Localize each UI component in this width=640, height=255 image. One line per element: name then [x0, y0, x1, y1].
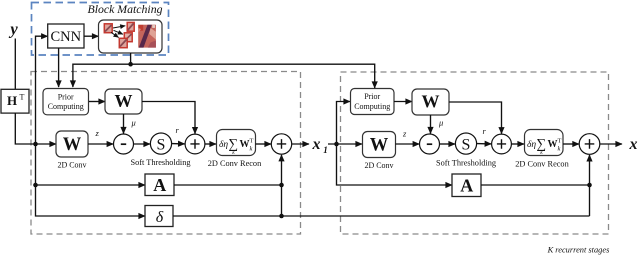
op S1 soft threshold: [150, 133, 171, 154]
op sum1 (stage output adder): [271, 134, 291, 154]
svg-text:2D Conv Recon: 2D Conv Recon: [515, 160, 569, 169]
block patch montage: [99, 20, 163, 53]
wire Wtop2 down to minus2: [430, 115, 432, 134]
svg-text:2D Conv: 2D Conv: [364, 161, 393, 170]
wire recon2 to sum2: [563, 143, 579, 145]
wire delta up into sum2: [589, 155, 591, 216]
svg-text:Soft Thresholding: Soft Thresholding: [436, 159, 496, 168]
wire W2 to minus2: [396, 143, 420, 145]
node junction delta sum1: [279, 214, 284, 219]
wire x1 up to prior2: [337, 102, 351, 145]
patch big: [138, 25, 156, 48]
patch P1: [104, 24, 112, 33]
op minus2: [420, 134, 440, 154]
svg-text:Soft Thresholding: Soft Thresholding: [131, 158, 191, 167]
patch P2: [127, 22, 134, 31]
wire sum2 to x out: [600, 143, 622, 145]
wire minus1 to S1: [134, 143, 151, 145]
patch P4: [119, 38, 127, 47]
wire Wtop1 to plus1 top: [142, 102, 195, 134]
svg-text:CNN: CNN: [50, 29, 81, 45]
svg-text:A: A: [153, 175, 166, 195]
wire Wtop2 to plus2 top: [449, 102, 502, 134]
wire A1 branch: [36, 144, 146, 185]
node junction x1: [334, 142, 339, 147]
wire delta out long: [173, 215, 590, 217]
wire patch arrows: [113, 26, 125, 28]
svg-text:x: x: [312, 136, 321, 153]
block recon1: [217, 130, 256, 156]
wire A2 to sum2 vertical: [481, 184, 590, 186]
svg-text:K recurrent stages: K recurrent stages: [547, 246, 610, 255]
wire prior2 to Wtop2: [394, 101, 412, 103]
svg-text:x: x: [629, 136, 638, 153]
block Wtop1: [105, 89, 142, 114]
svg-text:Prior: Prior: [58, 93, 74, 102]
svg-text:y: y: [8, 20, 18, 39]
block Wtop2: [412, 89, 449, 115]
svg-text:δ: δ: [156, 209, 164, 226]
wire y to HT: [14, 39, 16, 90]
wire x1 to W2: [328, 143, 362, 145]
block A2: [452, 174, 481, 197]
block W1 2D Conv: [56, 131, 88, 157]
svg-text:z: z: [95, 128, 100, 138]
wire A1 to sum1 vertical: [174, 184, 282, 186]
svg-text:S: S: [157, 136, 166, 153]
block CNN: [48, 24, 84, 48]
node junction main: [33, 142, 38, 147]
wire x1 down to A2: [337, 144, 453, 185]
wire sum1 to x1: [292, 143, 309, 145]
block W2 2D Conv: [363, 132, 396, 158]
node junction A2 out: [587, 183, 592, 188]
svg-text:Prior: Prior: [364, 92, 380, 101]
svg-text:μ: μ: [131, 118, 136, 128]
svg-text:W: W: [63, 135, 82, 155]
block prior computing 1: [43, 89, 89, 115]
svg-text:S: S: [462, 136, 471, 153]
stage 2 frame (gray dashed): [341, 72, 609, 234]
wire S1 to plus1: [172, 143, 185, 145]
svg-text:r: r: [483, 126, 487, 136]
wire CNN to patches: [84, 35, 99, 37]
op minus1: [114, 134, 134, 154]
op plus2: [492, 134, 512, 154]
wire S2 to plus2: [477, 143, 492, 145]
svg-text:∑: ∑: [229, 136, 239, 151]
svg-text:Computing: Computing: [354, 102, 390, 111]
patch P3: [124, 33, 132, 42]
wire up into sum1: [281, 155, 283, 216]
wire CNN down to prior1: [58, 48, 60, 87]
block prior computing 2: [351, 89, 395, 115]
block A1: [145, 174, 174, 196]
wire connector to prior2: [131, 64, 375, 88]
wire plus2 to recon2: [511, 143, 524, 145]
wire plus1 to recon1: [205, 143, 216, 145]
block matching module frame (blue dashed): [32, 3, 169, 56]
svg-text:Block Matching: Block Matching: [87, 2, 162, 16]
svg-text:Computing: Computing: [48, 102, 84, 111]
node junction connector: [128, 62, 133, 67]
op plus1: [185, 134, 205, 154]
svg-text:z: z: [402, 129, 407, 139]
svg-text:1: 1: [323, 145, 328, 155]
wire HT to main row: [15, 113, 56, 144]
node junction A1 out: [279, 183, 284, 188]
svg-text:W: W: [115, 91, 133, 111]
svg-text:2D Conv: 2D Conv: [57, 161, 86, 170]
node junction A1: [33, 183, 38, 188]
svg-text:r: r: [176, 125, 180, 135]
svg-text:W: W: [422, 91, 440, 111]
wire connector to prior1: [73, 64, 131, 87]
svg-text:δη: δη: [527, 140, 536, 150]
svg-text:∑: ∑: [537, 136, 547, 151]
svg-text:A: A: [460, 175, 473, 195]
svg-text:δη: δη: [219, 140, 228, 150]
wire Wtop1 down to minus1: [123, 114, 125, 134]
block recon2: [525, 130, 564, 156]
wire prior1 to Wtop1: [89, 101, 105, 103]
wire delta branch: [36, 185, 146, 216]
wire recon1 to sum1: [256, 143, 272, 145]
svg-text:2D Conv Recon: 2D Conv Recon: [208, 159, 262, 168]
svg-text:T: T: [20, 93, 25, 102]
wire minus2 to S2: [440, 143, 456, 145]
svg-text:H: H: [7, 93, 17, 108]
svg-text:μ: μ: [438, 118, 443, 128]
block delta: [145, 206, 173, 227]
op sum2 (final adder): [579, 134, 600, 155]
wire patches down to connector: [130, 53, 132, 64]
wire W1 to minus1: [88, 143, 113, 145]
svg-text:W: W: [370, 135, 389, 155]
block HT: [1, 89, 29, 113]
wire feedback up to CNN: [36, 36, 48, 144]
stage 1 frame (gray dashed): [31, 72, 301, 235]
op S2 soft threshold: [455, 133, 476, 154]
